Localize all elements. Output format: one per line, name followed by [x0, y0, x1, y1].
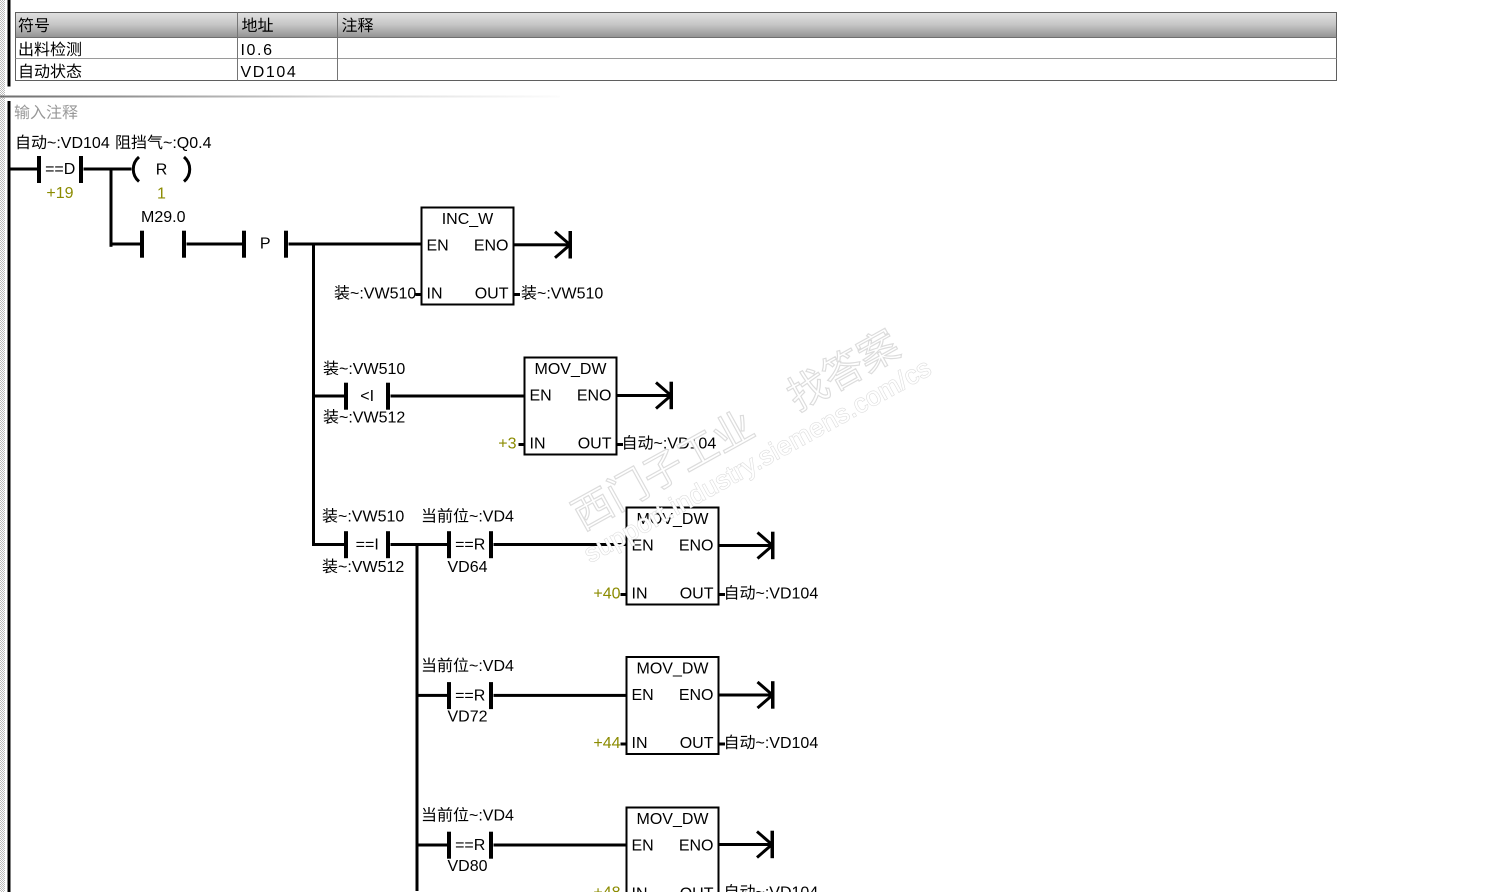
contact ==I (compare): [344, 531, 390, 558]
header cell 地址: [242, 18, 273, 32]
MOV_DW IN tick: [621, 743, 627, 746]
svg-text:ENO: ENO: [679, 687, 714, 704]
wire ==R to MOV_DW (rung6): [494, 844, 627, 847]
svg-text:IN: IN: [632, 735, 648, 752]
node branch junction to lower rungs: [312, 243, 315, 547]
operand label 阻挡气~:Q0.4: [116, 135, 211, 152]
wire INC_W ENO to arrow: [514, 243, 569, 246]
svg-text:VD80: VD80: [447, 858, 487, 875]
svg-text:EN: EN: [632, 687, 654, 704]
wire ==I to ==R: [391, 543, 448, 546]
svg-text:~:VD104: ~:VD104: [756, 735, 819, 752]
svg-text:I0.6: I0.6: [241, 42, 274, 59]
svg-text:~:Q0.4: ~:Q0.4: [163, 135, 212, 152]
row2 cell VD104: [241, 64, 298, 81]
svg-text:+44: +44: [593, 735, 620, 752]
svg-text:R: R: [156, 162, 168, 179]
symbol table column line 1: [237, 13, 239, 81]
operand label 当前位~:VD4 (rung4): [423, 508, 514, 526]
left power rail (network segment): [8, 101, 11, 892]
operand label M29.0: [141, 209, 186, 226]
wire branch to contact ==I: [314, 543, 345, 546]
operand label VD72: [447, 709, 487, 726]
svg-text:VD64: VD64: [447, 559, 487, 576]
svg-text:ENO: ENO: [679, 838, 714, 855]
MOV_DW IN operand +48: [593, 885, 620, 892]
MOV_DW IN operand +44: [593, 735, 620, 752]
row2 cell 自动状态: [21, 63, 82, 78]
svg-text:~:VW512: ~:VW512: [338, 559, 404, 576]
svg-text:~:VD104: ~:VD104: [47, 135, 110, 152]
wire contact ==D to coil: [84, 168, 132, 171]
coil operand count 1: [157, 186, 166, 203]
svg-text:~:VW510: ~:VW510: [339, 361, 405, 378]
box INC_W: [422, 208, 514, 305]
svg-text:==R: ==R: [455, 837, 485, 854]
operand label 当前位~:VD4 (rung5): [423, 657, 514, 675]
svg-text:1: 1: [157, 186, 166, 203]
svg-text:EN: EN: [530, 388, 552, 405]
wire <I to MOV_DW: [391, 395, 525, 398]
svg-text:+48: +48: [593, 885, 620, 892]
operand label VD80: [447, 858, 487, 875]
svg-text:~:VW510: ~:VW510: [350, 286, 416, 303]
operand label 装~:VW512 (rung3): [324, 409, 406, 426]
svg-text:+3: +3: [498, 436, 516, 453]
svg-text:+40: +40: [593, 586, 620, 603]
MOV_DW OUT operand 自动~:VD104: [726, 585, 818, 602]
network comment 输入注释: [15, 104, 78, 119]
MOV_DW OUT tick: [719, 743, 726, 746]
svg-text:ENO: ENO: [474, 238, 509, 255]
svg-text:OUT: OUT: [680, 886, 714, 892]
svg-text:OUT: OUT: [578, 436, 612, 453]
svg-text:IN: IN: [427, 286, 443, 303]
svg-text:==R: ==R: [455, 687, 485, 704]
MOV_DW IN operand +3: [498, 436, 516, 453]
svg-text:support.industry.siemens.com/c: support.industry.siemens.com/cs: [579, 352, 937, 568]
svg-text:~:VD104: ~:VD104: [756, 885, 819, 892]
operand label 当前位~:VD4 (rung6): [423, 807, 514, 825]
svg-text:~:VW510: ~:VW510: [537, 286, 603, 303]
box MOV_DW: [627, 808, 719, 892]
MOV_DW OUT operand 自动~:VD104: [624, 435, 716, 452]
operand label 装~:VW510 (rung3): [324, 361, 406, 378]
operand label 自动~:VD104: [18, 135, 110, 152]
svg-text:ENO: ENO: [679, 538, 714, 555]
wire ==R to MOV_DW (rung5): [494, 694, 627, 697]
contact ==R VD80: [447, 832, 493, 859]
svg-text:+19: +19: [46, 185, 73, 202]
box MOV_DW: [627, 657, 719, 754]
svg-text:P: P: [260, 236, 271, 253]
svg-text:OUT: OUT: [680, 735, 714, 752]
node branch junction rung4 down: [416, 543, 419, 891]
MOV_DW IN tick: [519, 443, 525, 446]
svg-text:IN: IN: [632, 586, 648, 603]
wire MOV_DW ENO to arrow: [719, 843, 771, 846]
contact ==R VD64: [447, 531, 493, 558]
svg-text:INC_W: INC_W: [442, 211, 494, 228]
INC_W OUT tick: [514, 293, 521, 296]
operand label 装~:VW510 (rung4): [323, 508, 405, 525]
network separator line: [0, 96, 560, 98]
wire ==R to MOV_DW (rung4): [494, 543, 627, 546]
symbol table header bottom border: [16, 37, 1337, 39]
svg-text:==I: ==I: [356, 537, 379, 554]
contact <I (compare): [344, 383, 390, 410]
rung continuation arrow: [758, 681, 775, 709]
row1 cell I0.6: [241, 42, 274, 59]
MOV_DW OUT tick: [719, 593, 726, 596]
svg-text:~:VD4: ~:VD4: [469, 509, 514, 526]
MOV_DW OUT operand 自动~:VD104: [726, 884, 818, 892]
header cell 符号: [19, 18, 49, 33]
svg-text:OUT: OUT: [475, 286, 509, 303]
svg-text:MOV_DW: MOV_DW: [535, 361, 608, 378]
svg-text:IN: IN: [632, 886, 648, 892]
svg-text:EN: EN: [632, 838, 654, 855]
wire branch to contact ==R (rung6): [419, 844, 448, 847]
svg-text:==R: ==R: [455, 537, 485, 554]
left margin hatched strip: [0, 0, 5, 892]
svg-text:M29.0: M29.0: [141, 209, 186, 226]
symbol table row separator: [16, 58, 1337, 60]
svg-text:ENO: ENO: [577, 388, 612, 405]
svg-text:~:VW510: ~:VW510: [338, 509, 404, 526]
INC_W IN operand 装~:VW510: [335, 285, 417, 302]
svg-text:OUT: OUT: [680, 586, 714, 603]
wire P to INC_W: [289, 243, 422, 246]
operand label VD64: [447, 559, 487, 576]
symbol table header row background: [15, 12, 1337, 37]
svg-text:~:VD104: ~:VD104: [756, 586, 819, 603]
operand label 装~:VW512 (rung4): [323, 559, 405, 576]
wire M29.0 to P: [187, 243, 243, 246]
wire MOV_DW ENO to arrow: [617, 394, 670, 397]
contact ==R VD72: [447, 682, 493, 709]
box MOV_DW: [525, 358, 617, 455]
svg-text:~:VD4: ~:VD4: [469, 808, 514, 825]
wire branch to contact ==R (rung5): [419, 694, 448, 697]
wire MOV_DW ENO to arrow: [719, 544, 772, 547]
wire branch to contact <I: [314, 395, 345, 398]
rung continuation arrow: [656, 382, 673, 410]
row1 cell 出料检测: [20, 41, 81, 56]
contact P (positive edge): [242, 231, 288, 258]
svg-text:==D: ==D: [45, 161, 75, 178]
INC_W IN tick: [416, 293, 422, 296]
MOV_DW OUT operand 自动~:VD104: [726, 735, 818, 752]
svg-text:MOV_DW: MOV_DW: [637, 811, 710, 828]
svg-text:MOV_DW: MOV_DW: [637, 661, 710, 678]
watermark 西门子工业 找答案 + siemens URL: [558, 315, 936, 568]
svg-text:IN: IN: [530, 436, 546, 453]
contact ==D (compare VD104): [37, 156, 83, 183]
svg-text:~:VD4: ~:VD4: [469, 658, 514, 675]
svg-text:VD104: VD104: [241, 64, 298, 81]
MOV_DW OUT tick: [617, 443, 624, 446]
rung continuation arrow: [555, 231, 572, 259]
MOV_DW IN tick: [621, 593, 627, 596]
svg-text:<I: <I: [360, 388, 374, 405]
coil R (reset Q0.4): [133, 157, 189, 182]
svg-text:EN: EN: [427, 238, 449, 255]
symbol table outer border: [16, 13, 1337, 81]
constant +19: [46, 185, 73, 202]
contact M29.0: [140, 231, 186, 258]
wire branch to contact M29.0: [113, 243, 141, 246]
wire rail to contact ==D: [10, 168, 37, 171]
rung continuation arrow: [758, 532, 775, 560]
MOV_DW IN operand +40: [593, 586, 620, 603]
left power rail (top segment): [8, 0, 11, 87]
INC_W OUT operand 装~:VW510: [522, 285, 604, 302]
box MOV_DW: [627, 508, 719, 605]
wire MOV_DW ENO to arrow: [719, 694, 772, 697]
rung continuation arrow: [757, 831, 774, 859]
symbol table column line 2: [337, 13, 339, 81]
node branch junction rung1: [110, 168, 113, 247]
svg-text:~:VW512: ~:VW512: [339, 410, 405, 427]
svg-text:VD72: VD72: [447, 709, 487, 726]
header cell 注释: [342, 17, 373, 32]
